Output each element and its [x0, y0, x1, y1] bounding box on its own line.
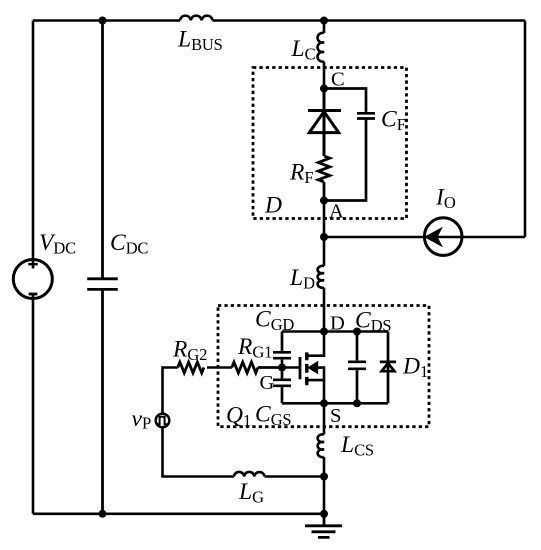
svg-text:G: G: [260, 372, 275, 394]
wire bottom rail: [33, 512, 324, 515]
inductor LC: [318, 21, 324, 89]
node CDS bottom: [353, 399, 361, 407]
wire top bus: [33, 19, 525, 22]
wire Io branch: [324, 236, 525, 239]
arrow Io: [424, 227, 443, 247]
mosfet body arrow: [307, 361, 318, 375]
svg-text:CF: CF: [381, 107, 406, 135]
svg-text:LBUS: LBUS: [177, 27, 223, 55]
svg-text:LG: LG: [238, 479, 264, 507]
inductor LCS: [318, 403, 324, 476]
ground: [305, 514, 342, 538]
wire Q1 top rail: [282, 330, 388, 333]
node junction LG: [320, 473, 328, 481]
svg-text:CDC: CDC: [110, 230, 148, 258]
mosfet gate bar: [299, 357, 302, 379]
node S: [320, 399, 328, 407]
svg-text:RG1: RG1: [237, 334, 272, 362]
svg-text:LC: LC: [291, 36, 316, 64]
node junction bottom-CDC: [99, 510, 107, 518]
pulse glyph vP: [157, 417, 166, 425]
inductor LBUS: [180, 16, 212, 21]
node junction top-CDC: [99, 17, 107, 25]
wire Q1 bottom rail: [282, 402, 388, 405]
wire right rail: [524, 21, 527, 238]
svg-text:CDS: CDS: [355, 308, 391, 336]
mosfet drain lead: [307, 332, 324, 356]
svg-text:vP: vP: [132, 406, 151, 433]
mosfet channel segments: [305, 352, 308, 385]
node C: [320, 85, 328, 93]
capacitor CF branch: [324, 89, 375, 201]
source VDC: [13, 260, 52, 299]
dashed box Q1: [218, 306, 429, 427]
node CDS top: [353, 328, 361, 336]
wire left rail lower: [32, 294, 35, 514]
svg-text:D1: D1: [402, 354, 428, 382]
node D: [320, 328, 328, 336]
mosfet body-source lead: [307, 368, 324, 404]
diode D body: [308, 89, 341, 157]
wire Io through: [424, 236, 463, 239]
svg-text:LD: LD: [289, 265, 315, 293]
capacitor CGS: [273, 368, 291, 404]
node G: [278, 364, 286, 372]
resistor RG1: [232, 362, 282, 373]
wire vP down to LG: [163, 428, 235, 476]
resistor RG2: [178, 362, 204, 373]
svg-text:D: D: [330, 313, 345, 335]
svg-text:LCS: LCS: [340, 432, 374, 460]
svg-text:D: D: [264, 193, 282, 219]
node junction Io: [320, 233, 328, 241]
svg-text:RF: RF: [289, 160, 313, 188]
svg-text:A: A: [329, 201, 344, 223]
capacitor CDC: [87, 21, 118, 514]
svg-text:RG2: RG2: [172, 337, 207, 365]
node junction ground: [320, 510, 328, 518]
mosfet gate lead: [282, 366, 300, 369]
node A: [320, 197, 328, 205]
wire VDC plus: [28, 263, 37, 266]
svg-text:VDC: VDC: [39, 230, 76, 258]
svg-text:S: S: [330, 405, 341, 427]
source vP: [156, 414, 170, 428]
wire node A to Io junction: [323, 201, 326, 238]
wire to ground: [323, 477, 326, 514]
diode D1: [380, 332, 396, 404]
resistor RF: [318, 156, 330, 201]
source Io: [424, 218, 462, 256]
node junction top-LC: [320, 17, 328, 25]
capacitor CGD: [273, 332, 291, 368]
svg-text:C: C: [331, 69, 345, 91]
capacitor CDS: [348, 332, 366, 404]
svg-text:CGS: CGS: [255, 402, 291, 430]
svg-text:Q1: Q1: [226, 403, 251, 431]
wire VDC minus: [29, 293, 38, 296]
wire RG1 left: [207, 366, 232, 369]
inductor LD: [318, 237, 324, 332]
svg-text:IO: IO: [435, 185, 456, 213]
svg-text:CGD: CGD: [255, 307, 294, 335]
dashed box D: [253, 68, 407, 219]
wire vP to RG2: [163, 368, 178, 413]
inductor LG: [234, 472, 324, 477]
wire left rail: [32, 21, 35, 269]
